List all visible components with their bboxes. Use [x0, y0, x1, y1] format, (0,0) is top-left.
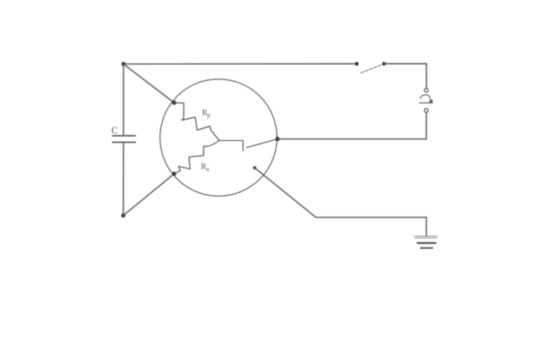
wire left vertical rail (node A down to capacitor top plate) [123, 64, 125, 135]
wire diagonal node A to circle upper-left terminal [124, 64, 175, 103]
node circle upper-left terminal [172, 101, 176, 105]
resistor Ra zigzag [174, 141, 219, 174]
terminal top circle [424, 88, 428, 92]
svg-text:C: C [112, 126, 118, 136]
wire ground horizontal run [316, 216, 426, 218]
node circle lower-left terminal [172, 172, 176, 176]
potentiometer enclosure circle [160, 79, 277, 196]
wire capacitor bottom to node B [122, 142, 124, 215]
wire switch to right corner [384, 63, 426, 65]
wire right terminal to right rail [278, 138, 427, 140]
node B bottom-left junction [121, 214, 125, 218]
svg-text:Ra: Ra [201, 162, 209, 173]
wire diagonal inner tap to ground run [255, 168, 316, 218]
wire ground vertical drop [425, 217, 427, 236]
capacitor C [113, 136, 136, 143]
wire bottom terminal down to right rail corner [425, 112, 427, 139]
resistor Rp zigzag [174, 103, 219, 141]
node inner tap dot [253, 166, 256, 169]
node circle right terminal [275, 137, 279, 141]
wire diagonal node B to circle lower-left terminal [123, 174, 174, 216]
wiper contact diagonal to right terminal [247, 139, 278, 148]
node A top-left junction [122, 62, 126, 66]
svg-text:Rp: Rp [202, 108, 210, 119]
source symbol squiggle [419, 95, 432, 103]
switch S right contact [382, 62, 386, 66]
wire top horizontal left segment [124, 63, 357, 65]
switch S left contact [355, 62, 359, 66]
terminal bottom circle [424, 109, 428, 113]
wire right corner down to terminal [425, 64, 427, 89]
switch S lever [361, 65, 382, 73]
ground symbol [415, 236, 438, 248]
wiper arm horizontal with hook [219, 141, 243, 151]
